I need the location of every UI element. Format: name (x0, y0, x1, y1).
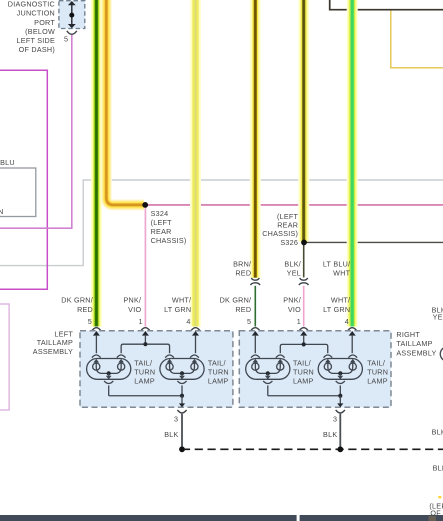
pin 5 entry arrow (252, 331, 259, 353)
pin 1 entry arrow (142, 331, 149, 344)
wire: S324 pink output going right to page edge (145, 204, 443, 206)
svg-text:TAIL/: TAIL/ (134, 358, 152, 367)
connector arc below left assembly (pin 3) (177, 410, 186, 413)
lamp: left tail/turn bulb 2 (160, 355, 204, 396)
label: LT BLU/WHT wire color (323, 259, 351, 277)
node: gray component box at left edge (with BLU wire label) (0, 168, 36, 217)
svg-text:BRN/: BRN/ (233, 259, 251, 268)
svg-text:LAMP: LAMP (367, 377, 388, 386)
svg-text:LT GRN: LT GRN (323, 305, 350, 314)
svg-text:OF DASH): OF DASH) (19, 45, 55, 54)
turn feed bus between bulbs (121, 344, 169, 353)
svg-text:LAMP: LAMP (293, 377, 314, 386)
svg-text:(BELOW: (BELOW (25, 27, 55, 36)
node: ground junction dot left (179, 446, 185, 452)
label: right BLK wire color (323, 430, 337, 439)
svg-text:YEL: YEL (433, 312, 443, 321)
label: pin numbers at taillamp connectors (88, 317, 349, 326)
label: tail/turn lamp bulb 1 left (134, 358, 155, 385)
svg-text:1: 1 (297, 317, 301, 326)
svg-text:WHT: WHT (333, 269, 350, 278)
wire W6 LT BLU/WHT highlighted (to right taillamp pin 4) (347, 0, 358, 327)
label: PNK/VIO wire color (right) (283, 296, 301, 314)
pin 1 entry arrow (300, 331, 307, 344)
wire: BLK/YEL thin segment from S326 down to inline connector (303, 242, 305, 277)
lamp: right tail/turn bulb 2 (318, 355, 362, 396)
pin 4 entry arrow (349, 331, 356, 353)
svg-text:CHASSIS): CHASSIS) (262, 229, 298, 238)
svg-text:PNK/: PNK/ (124, 296, 142, 305)
svg-text:BLK/: BLK/ (284, 259, 301, 268)
node: highlighted wire fragment at right page edge (438, 496, 441, 498)
node: gold component corner top right (391, 11, 443, 68)
svg-text:TAIL/: TAIL/ (208, 358, 226, 367)
label: splice S326 name (262, 212, 298, 247)
diagnostic junction port component box U1 (59, 1, 85, 29)
label: left BLK wire color (164, 430, 178, 439)
svg-text:(LEFT: (LEFT (151, 218, 173, 227)
node: ground junction dot right (337, 446, 343, 452)
svg-text:DK GRN/: DK GRN/ (220, 296, 252, 305)
wire W3 WHT/LT GRN highlighted (to left taillamp pin 4) (190, 0, 201, 327)
svg-text:5: 5 (64, 35, 68, 44)
label: left taillamp assembly name (33, 329, 74, 356)
svg-text:TAIL/: TAIL/ (293, 358, 311, 367)
svg-text:LT BLU/: LT BLU/ (323, 259, 350, 268)
connector arcs at taillamp box pins (top of assemblies) (92, 328, 356, 331)
svg-text:REAR: REAR (151, 227, 172, 236)
label: BRN/RED wire color (233, 259, 251, 277)
svg-text:RED: RED (77, 305, 93, 314)
connector arc below diagnostic junction port (pin 5) (67, 31, 77, 35)
svg-text:YEL: YEL (287, 269, 301, 278)
label: BLU wire tail at left edge (0, 158, 15, 167)
left taillamp assembly dashed box (80, 331, 233, 408)
wire W2 orange/yellow highlighted elbow into splice S324 (106, 0, 144, 205)
svg-text:ASSEMBLY: ASSEMBLY (33, 347, 73, 356)
label: BLK/YEL wire color (284, 259, 301, 277)
lamp: right tail/turn bulb 1 (246, 355, 290, 396)
node: bus junction dot (143, 342, 147, 346)
svg-text:VIO: VIO (128, 305, 141, 314)
svg-text:JUNCTION: JUNCTION (17, 9, 55, 18)
svg-text:1: 1 (139, 317, 143, 326)
inline connector pair on BLK/YEL -> PNK/VIO wire (299, 278, 309, 285)
node: dark component corner top right (330, 0, 443, 10)
svg-text:5: 5 (88, 317, 92, 326)
label: right taillamp assembly name (396, 330, 436, 357)
connector arc below right assembly (pin 3) (336, 410, 345, 413)
turn feed bus between bulbs (280, 344, 327, 353)
wire W4 BRN/RED highlighted (to inline connector above right taillamp pin 5) (250, 0, 261, 278)
label: DK GRN/RED wire color (left) (61, 296, 93, 314)
svg-text:ASSEMBLY: ASSEMBLY (396, 348, 436, 357)
label: letter fragment in gray box (0, 207, 4, 216)
svg-text:LT GRN: LT GRN (164, 305, 191, 314)
label: tail/turn lamp bulb 2 left (208, 358, 229, 385)
label: right ground pin 3 (333, 414, 337, 423)
wire: magenta wire from diagnostic junction port pin 5 down and off left edge (0, 35, 72, 229)
svg-text:LAMP: LAMP (134, 377, 155, 386)
svg-text:LEFT SIDE: LEFT SIDE (17, 36, 55, 45)
svg-text:BLK: BLK (433, 464, 443, 473)
node: bus junction dot (302, 342, 306, 346)
node: dark page divider bar bottom (0, 515, 443, 521)
svg-text:N: N (0, 207, 4, 216)
svg-text:LAMP: LAMP (208, 377, 229, 386)
svg-text:4: 4 (186, 317, 190, 326)
svg-text:RIGHT: RIGHT (396, 330, 420, 339)
svg-text:5: 5 (247, 317, 251, 326)
label: splice S324 name (151, 209, 187, 245)
label: BLK/YEL at right page edge (432, 305, 443, 321)
wire: left BLK ground wire (181, 414, 183, 447)
wire W1 DK GRN/RED highlighted (left, to left taillamp pin 5) (91, 0, 102, 327)
svg-text:CHASSIS): CHASSIS) (151, 236, 187, 245)
pin 4 entry arrow (192, 331, 199, 353)
svg-text:TURN: TURN (293, 368, 314, 377)
node: pale pink connector box at left edge (0, 304, 9, 410)
svg-text:S326: S326 (280, 238, 298, 247)
pin 5 entry arrow (93, 331, 100, 353)
lamp: left tail/turn bulb 1 (87, 355, 131, 396)
wire: DK GRN/RED thin segment below inline connector to right taillamp pin 5 (254, 286, 256, 327)
svg-text:WHT/: WHT/ (172, 296, 191, 305)
label: BLK at right page edge (lower) (433, 464, 443, 473)
label: port pin number 5 (64, 35, 68, 44)
svg-text:BLK: BLK (323, 430, 337, 439)
label: BLK at right page edge (upper) (432, 428, 443, 437)
splice S326 junction dot (301, 240, 307, 246)
svg-text:BLK: BLK (432, 428, 443, 437)
svg-text:VIO: VIO (288, 305, 301, 314)
left taillamp assembly internals (93, 331, 199, 353)
svg-text:TURN: TURN (134, 368, 155, 377)
svg-text:WHT/: WHT/ (331, 296, 350, 305)
wire: left assembly ground bus and exit (109, 394, 185, 408)
svg-text:TAILLAMP: TAILLAMP (37, 338, 73, 347)
svg-text:TURN: TURN (208, 368, 229, 377)
wire W5 BLK/YEL highlighted (to splice S326) (298, 0, 309, 242)
wire: S326 black output going right to page edge (304, 241, 443, 243)
splice S324 junction dot (142, 202, 148, 208)
right taillamp assembly internals (252, 331, 356, 353)
label: WHT/LT GRN wire color (left) (164, 296, 191, 314)
label: WHT/LT GRN wire color (right) (323, 296, 350, 314)
svg-text:PNK/: PNK/ (283, 296, 301, 305)
svg-text:PORT: PORT (34, 18, 55, 27)
svg-text:BLU: BLU (0, 158, 15, 167)
wire: PNK/VIO vertical from S324 to left taillamp pin 1 (144, 205, 146, 327)
svg-text:3: 3 (174, 414, 178, 423)
svg-text:DK GRN/: DK GRN/ (61, 296, 93, 305)
label: tail/turn lamp bulb 2 right (367, 358, 388, 385)
node: partial rectangle (magenta component outline, off-page left) (0, 70, 47, 289)
svg-text:RED: RED (235, 305, 251, 314)
right taillamp assembly dashed box (239, 331, 391, 408)
inline connector pair on BRN/RED -> DK GRN/RED wire (251, 278, 261, 285)
wire: right assembly ground bus and exit (268, 394, 344, 408)
label: tail/turn lamp bulb 1 right (293, 358, 314, 385)
wire: gray reference line from left edge up to horizontal crossing page (0, 180, 443, 266)
label: DK GRN/RED wire color (right) (220, 296, 252, 314)
wire: right BLK ground wire (339, 414, 341, 447)
svg-text:RED: RED (235, 269, 251, 278)
node: partial connector circle at right edge (440, 347, 443, 361)
label: left ground pin 3 (174, 414, 178, 423)
wire: PNK/VIO thin segment below inline connector to right taillamp pin 1 (303, 286, 305, 327)
label: PNK/VIO wire color (left) (124, 296, 142, 314)
svg-text:BLK: BLK (164, 430, 178, 439)
label: (LEFT ... fragment at bottom right page edge (429, 502, 443, 518)
svg-text:DIAGNOSTIC: DIAGNOSTIC (8, 0, 55, 9)
highlighted circuit wires group (96, 0, 352, 327)
label: diagnostic junction port name (8, 0, 56, 54)
svg-text:S324: S324 (151, 209, 169, 218)
svg-text:3: 3 (333, 414, 337, 423)
svg-text:TAILLAMP: TAILLAMP (396, 339, 432, 348)
svg-text:TAIL/: TAIL/ (367, 358, 385, 367)
svg-text:4: 4 (345, 317, 349, 326)
ground: dashed ground bus line (182, 448, 443, 450)
svg-text:TURN: TURN (367, 368, 388, 377)
